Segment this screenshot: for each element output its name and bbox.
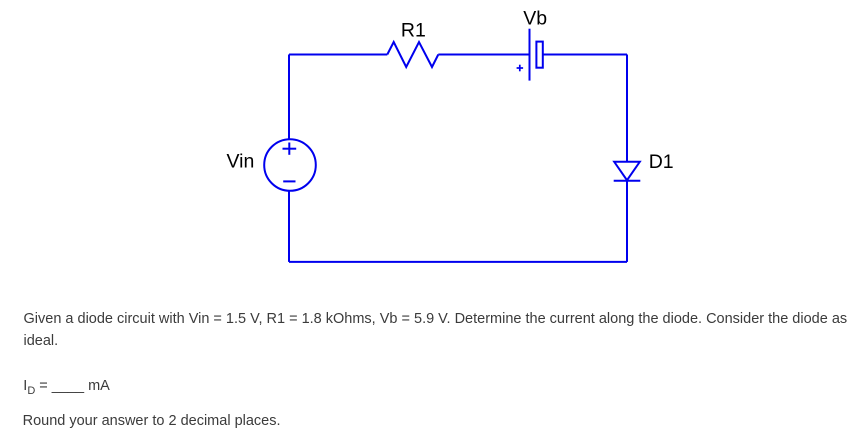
source Vin plus mark: [283, 143, 297, 155]
svg-text:Vb: Vb: [523, 8, 547, 30]
resistor R1: [387, 42, 438, 67]
wire left rail lower: [288, 191, 290, 262]
battery plus mark: [517, 65, 524, 72]
answer blank line: [23, 375, 110, 402]
problem statement paragraph: [24, 308, 854, 352]
battery Vb short plate: [536, 42, 542, 68]
wire right rail lower: [626, 181, 628, 262]
source Vin minus mark: [283, 180, 295, 182]
svg-text:Vin: Vin: [227, 151, 255, 173]
diode D1 triangle: [614, 162, 640, 180]
wire right rail upper: [626, 55, 628, 162]
rounding instruction: [23, 410, 281, 432]
wire bottom rail: [289, 261, 627, 263]
wire left rail upper: [288, 55, 290, 140]
battery Vb long plate: [529, 29, 531, 81]
wire resistor to battery: [438, 54, 529, 56]
source Vin circle: [264, 139, 316, 191]
svg-text:R1: R1: [401, 20, 426, 42]
wire battery to top-right corner: [543, 54, 627, 56]
diode D1 cathode bar: [614, 180, 641, 182]
wire top rail left segment: [289, 54, 387, 56]
svg-text:D1: D1: [649, 151, 674, 173]
